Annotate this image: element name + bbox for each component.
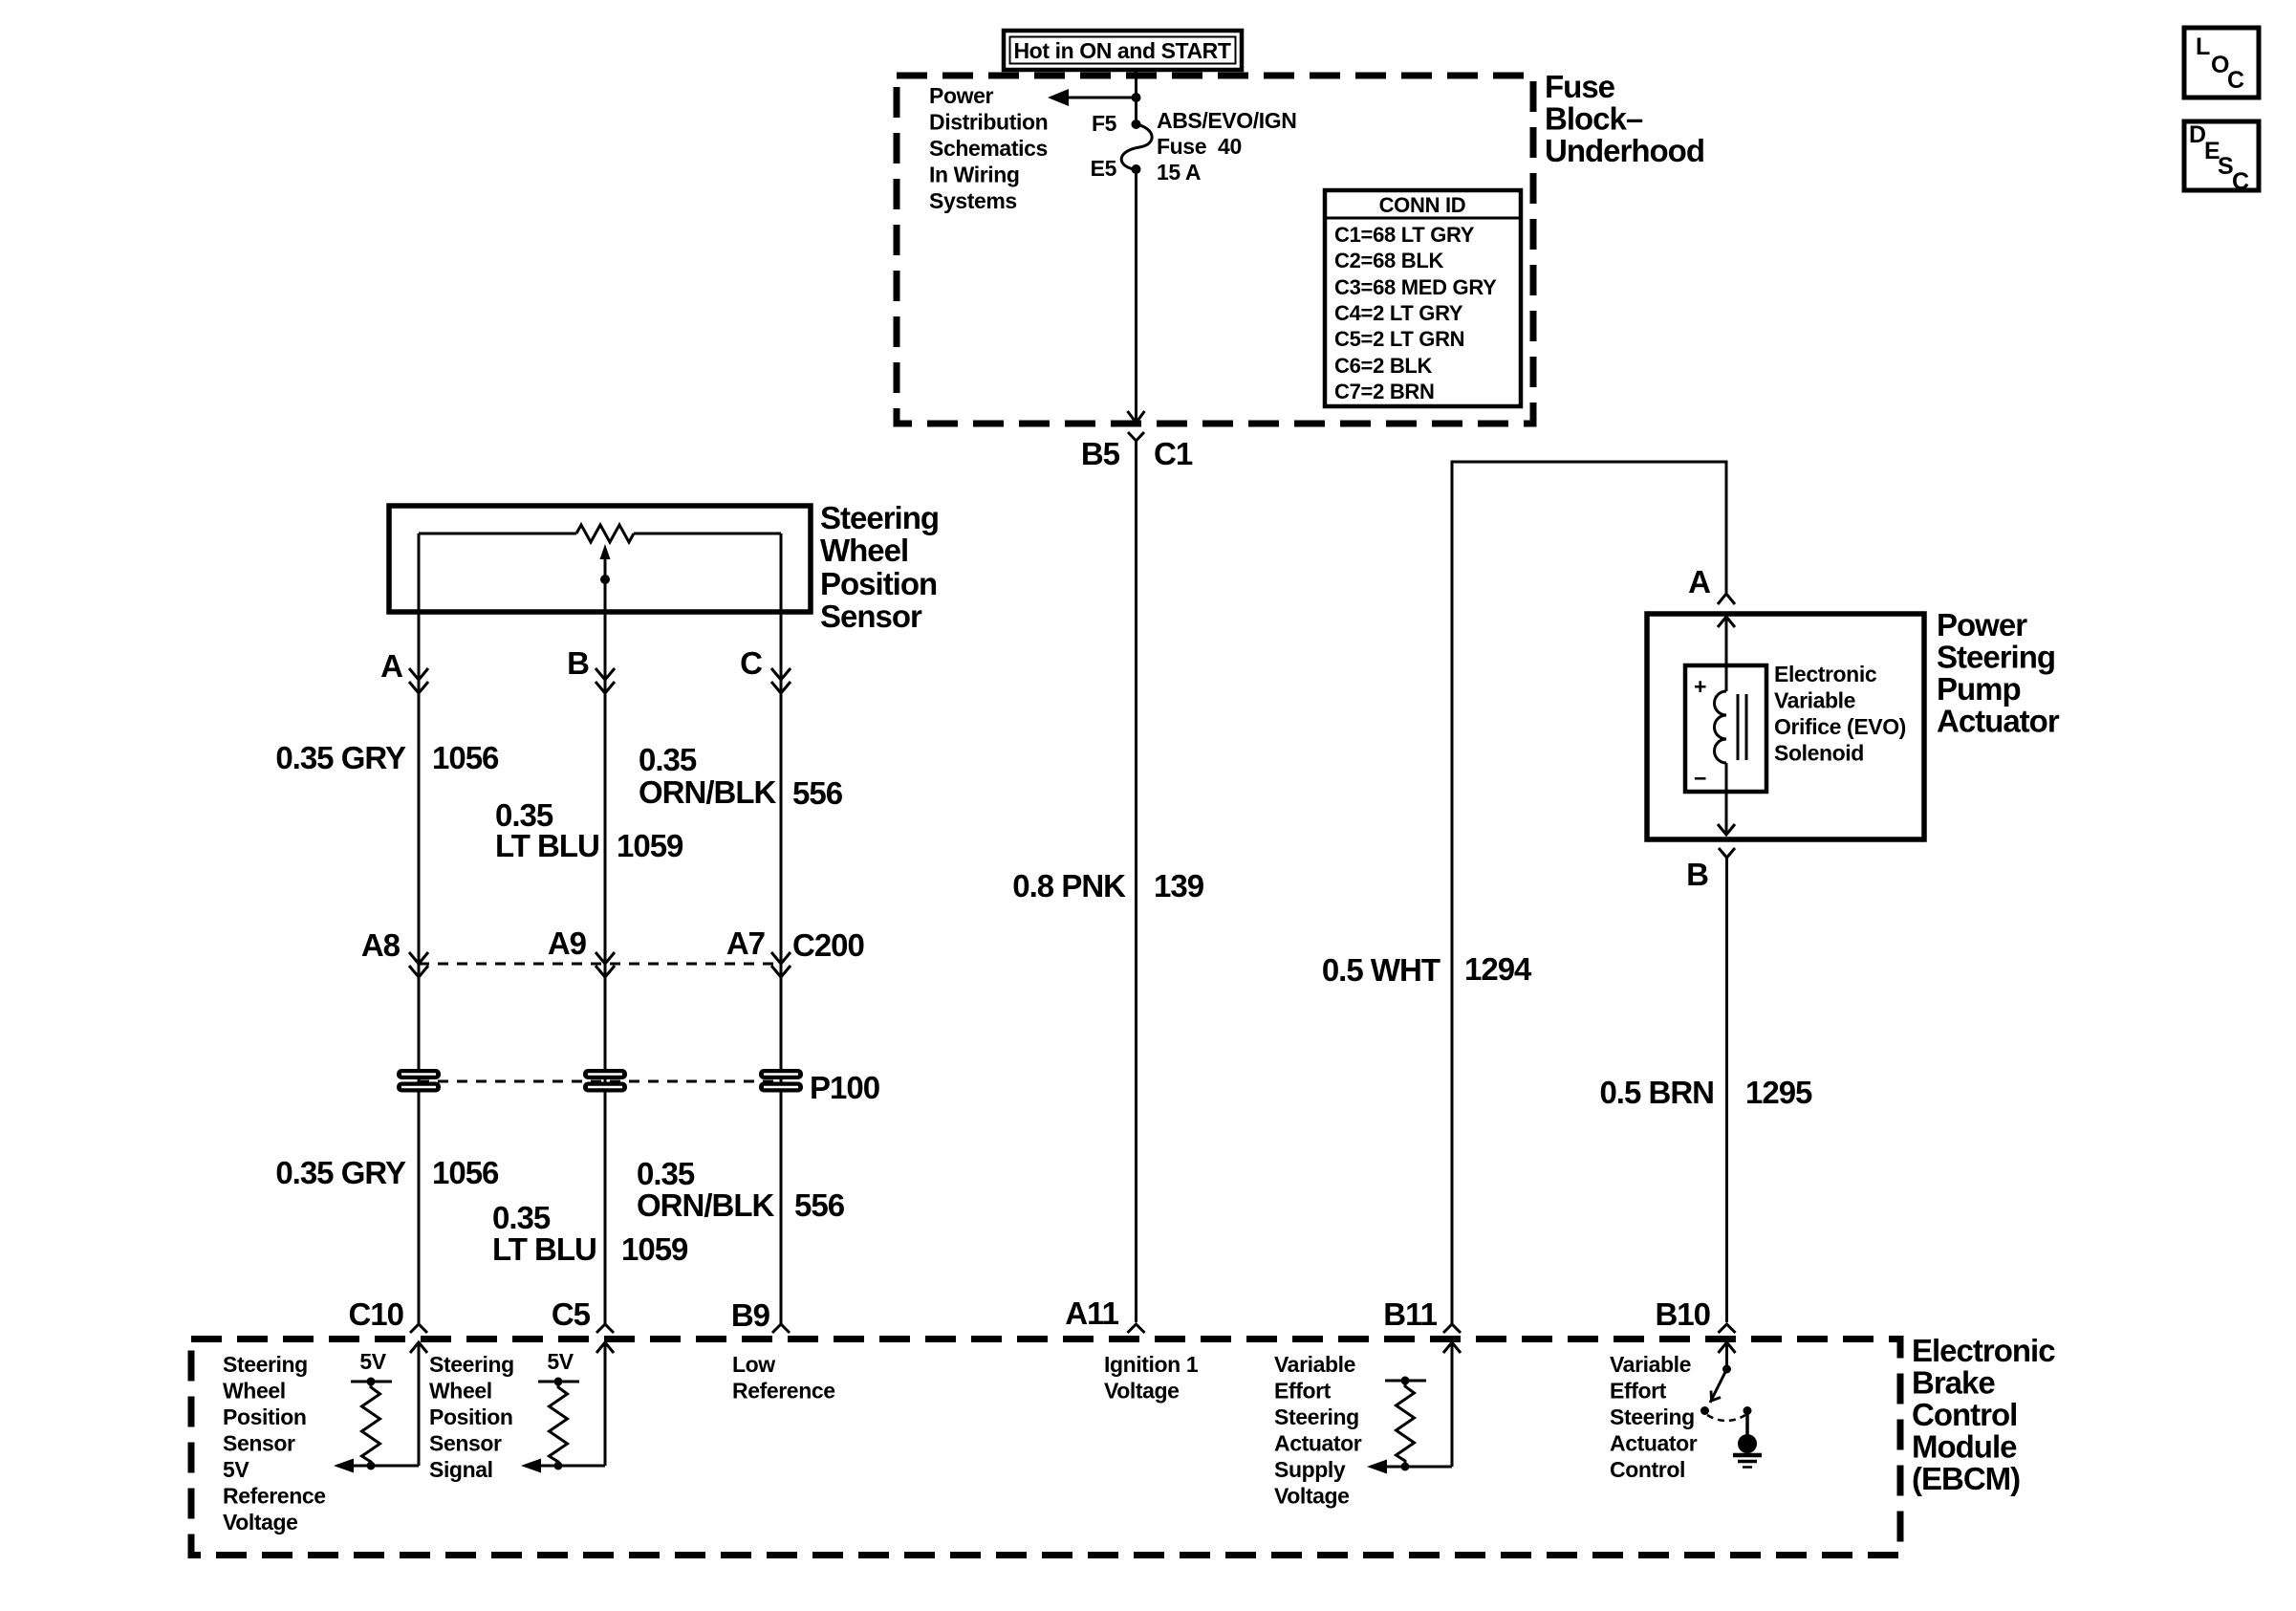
wire ignition feed inside fuse block [1135, 169, 1137, 422]
5V reference circuit at C10 [334, 1342, 427, 1473]
solenoid coil [1715, 691, 1727, 763]
svg-text:(EBCM): (EBCM) [1912, 1461, 2020, 1496]
connector A at actuator [1688, 564, 1735, 604]
svg-text:Variable: Variable [1610, 1352, 1691, 1377]
pull-up resistor at C5 [538, 1378, 579, 1470]
svg-text:Signal: Signal [429, 1457, 493, 1482]
arrow up into actuator [1718, 617, 1735, 627]
svg-text:0.35 GRY: 0.35 GRY [275, 740, 406, 775]
pull-up resistor at C10 [351, 1378, 392, 1470]
wire label 0.35 ORN/BLK 556 (upper) [639, 742, 843, 811]
svg-text:0.35: 0.35 [639, 742, 697, 777]
svg-text:ORN/BLK: ORN/BLK [639, 774, 776, 810]
pin C10 [348, 1296, 427, 1333]
DESC corner box [2184, 121, 2259, 195]
power steering pump actuator box [1647, 614, 1924, 839]
actuator title [1937, 607, 2060, 739]
svg-text:5V: 5V [359, 1349, 386, 1374]
sensor title [820, 500, 939, 634]
svg-text:C1=68 LT GRY: C1=68 LT GRY [1334, 223, 1475, 247]
svg-text:0.35: 0.35 [492, 1200, 551, 1235]
svg-text:Wheel: Wheel [820, 533, 908, 568]
svg-text:C10: C10 [348, 1296, 403, 1332]
EBCM text: ignition 1 voltage [1104, 1352, 1199, 1404]
svg-text:B10: B10 [1655, 1296, 1710, 1332]
svg-text:Orifice (EVO): Orifice (EVO) [1774, 714, 1906, 739]
svg-text:556: 556 [794, 1187, 845, 1223]
svg-text:Fuse: Fuse [1545, 69, 1615, 104]
svg-text:Variable: Variable [1774, 688, 1855, 713]
svg-text:ABS/EVO/IGN: ABS/EVO/IGN [1157, 108, 1296, 133]
svg-text:Actuator: Actuator [1274, 1431, 1362, 1456]
arrow down inside actuator [1718, 824, 1735, 835]
svg-text:0.5 WHT: 0.5 WHT [1322, 952, 1440, 988]
EBCM text: variable effort steering actuator control [1610, 1352, 1698, 1482]
pin C of sensor [740, 645, 791, 693]
EBCM text: steering wheel position sensor signal [429, 1352, 514, 1482]
pin B of sensor [567, 645, 615, 693]
potentiometer track wires [419, 533, 576, 535]
svg-text:C200: C200 [792, 927, 864, 963]
svg-text:B9: B9 [731, 1297, 770, 1333]
svg-text:Ignition 1: Ignition 1 [1104, 1352, 1199, 1377]
svg-text:0.8 PNK: 0.8 PNK [1012, 868, 1126, 903]
svg-text:Schematics: Schematics [929, 136, 1048, 161]
svg-text:5V: 5V [547, 1349, 574, 1374]
svg-text:Effort: Effort [1610, 1379, 1667, 1404]
svg-text:1056: 1056 [432, 740, 499, 775]
svg-text:C5=2 LT GRN: C5=2 LT GRN [1334, 327, 1464, 351]
pull-up resistor at B11 [1385, 1377, 1426, 1471]
svg-text:1295: 1295 [1745, 1075, 1812, 1110]
svg-text:P100: P100 [810, 1070, 879, 1105]
svg-text:In Wiring: In Wiring [929, 163, 1020, 187]
svg-text:Position: Position [820, 566, 937, 601]
pin B9 [731, 1297, 790, 1333]
svg-text:Distribution: Distribution [929, 110, 1048, 135]
svg-text:Control: Control [1610, 1457, 1685, 1482]
wire B from sensor [604, 579, 607, 1324]
fuse block title [1545, 69, 1704, 168]
svg-text:0.5 BRN: 0.5 BRN [1599, 1075, 1714, 1110]
EBCM text: variable effort steering actuator supply voltage [1274, 1352, 1362, 1509]
pin B10 [1655, 1296, 1735, 1333]
svg-text:Position: Position [429, 1404, 513, 1429]
solenoid core lines [1737, 694, 1740, 760]
svg-text:Steering: Steering [429, 1352, 514, 1377]
svg-text:C2=68 BLK: C2=68 BLK [1334, 249, 1443, 272]
svg-text:B: B [1686, 857, 1708, 892]
svg-text:Variable: Variable [1274, 1352, 1355, 1377]
svg-text:E5: E5 [1091, 156, 1117, 181]
arrow to power distribution [1048, 89, 1069, 106]
svg-text:Block–: Block– [1545, 101, 1643, 137]
P100 grommet on wire B [583, 1069, 627, 1093]
svg-text:+: + [1694, 674, 1706, 699]
wire 0.5 BRN 1295 [1725, 858, 1728, 1322]
svg-text:1056: 1056 [432, 1155, 499, 1190]
C200 crossing at A8 [361, 927, 428, 977]
svg-text:LT BLU: LT BLU [495, 828, 599, 863]
svg-text:B11: B11 [1383, 1296, 1437, 1332]
svg-text:Voltage: Voltage [223, 1510, 298, 1535]
svg-text:Fuse 40: Fuse 40 [1157, 134, 1242, 159]
svg-text:C4=2 LT GRY: C4=2 LT GRY [1334, 301, 1463, 325]
svg-text:Wheel: Wheel [223, 1379, 286, 1404]
svg-text:ORN/BLK: ORN/BLK [637, 1187, 774, 1223]
wire label 0.35 LT BLU 1059 (upper) [495, 797, 683, 863]
fuse value labels [1157, 108, 1296, 185]
wire 0.8 PNK 139 (ignition 1 voltage) [1135, 441, 1137, 1322]
svg-text:A9: A9 [548, 925, 587, 961]
C200 crossing at A9 [548, 925, 615, 977]
svg-text:Wheel: Wheel [429, 1379, 492, 1404]
solenoid label [1774, 662, 1906, 766]
svg-text:A7: A7 [726, 925, 765, 961]
EBCM dashed box [191, 1339, 1900, 1556]
fuse ABS/EVO/IGN 15A [1121, 124, 1152, 169]
fuse block underhood dashed box [897, 76, 1533, 424]
pin A of sensor [380, 648, 428, 693]
svg-text:15 A: 15 A [1157, 160, 1201, 185]
svg-text:556: 556 [792, 775, 843, 811]
potentiometer resistor [576, 525, 634, 542]
svg-text:−: − [1694, 766, 1706, 791]
ground inside EBCM [1733, 1410, 1762, 1468]
svg-text:Steering: Steering [223, 1352, 308, 1377]
svg-text:1059: 1059 [621, 1231, 688, 1267]
CONN ID table [1325, 190, 1521, 406]
svg-text:Control: Control [1912, 1397, 2017, 1432]
connector B at actuator [1686, 848, 1735, 892]
steering wheel position sensor box [389, 506, 811, 612]
svg-text:B5: B5 [1081, 436, 1120, 471]
wire label 0.35 GRY 1056 (upper) [275, 740, 499, 775]
svg-text:C1: C1 [1154, 436, 1193, 471]
svg-text:1294: 1294 [1464, 951, 1532, 987]
LOC corner box [2184, 28, 2259, 98]
P100 grommet on wire C [759, 1069, 803, 1093]
svg-text:L: L [2196, 33, 2210, 60]
EVO solenoid box [1685, 665, 1766, 792]
wire 0.5 WHT 1294 top run [1452, 462, 1726, 1324]
EBCM text: low reference [732, 1352, 835, 1404]
svg-text:Reference: Reference [223, 1484, 326, 1509]
connector B5 / C1 [1081, 432, 1193, 471]
P100 grommet on wire A [397, 1069, 441, 1093]
svg-text:5V: 5V [223, 1457, 249, 1482]
C200 crossing at A7 [726, 925, 791, 977]
svg-text:LT BLU: LT BLU [492, 1231, 596, 1267]
svg-text:Systems: Systems [929, 188, 1017, 213]
note: power distribution schematics [929, 83, 1048, 213]
wire from solenoid to actuator bottom [1725, 763, 1728, 835]
EBCM title [1912, 1333, 2055, 1496]
wire C from sensor [780, 612, 783, 1324]
svg-text:Hot in ON and START: Hot in ON and START [1013, 38, 1230, 63]
svg-text:Underhood: Underhood [1545, 133, 1704, 168]
supply voltage circuit at B11 [1367, 1342, 1461, 1474]
svg-text:C7=2 BRN: C7=2 BRN [1334, 380, 1435, 403]
pin F5 [1132, 120, 1141, 129]
svg-text:Position: Position [223, 1404, 307, 1429]
svg-text:Steering: Steering [1610, 1404, 1695, 1429]
svg-text:Steering: Steering [820, 500, 939, 535]
svg-text:C6=2 BLK: C6=2 BLK [1334, 354, 1433, 378]
svg-text:Voltage: Voltage [1104, 1379, 1180, 1404]
svg-text:0.35: 0.35 [637, 1156, 695, 1191]
connector C200 dashed line [419, 963, 781, 966]
wiper node [600, 575, 610, 584]
control switch at B10 [1700, 1342, 1752, 1421]
svg-text:A11: A11 [1065, 1295, 1118, 1331]
hot-in-on label box [1004, 31, 1242, 70]
wiper arrow [604, 558, 607, 579]
svg-text:Actuator: Actuator [1937, 704, 2060, 739]
wire label 0.35 ORN/BLK 556 (lower) [637, 1156, 845, 1223]
svg-text:Electronic: Electronic [1912, 1333, 2055, 1368]
svg-text:Sensor: Sensor [429, 1431, 502, 1456]
svg-text:A8: A8 [361, 927, 401, 963]
svg-text:Reference: Reference [732, 1379, 835, 1404]
pin B11 [1383, 1296, 1461, 1333]
wire from hot box into fuse block [1135, 70, 1137, 124]
svg-text:C: C [2227, 67, 2244, 94]
arrow down at fuse block exit [1128, 411, 1145, 423]
svg-text:B: B [567, 645, 589, 681]
svg-text:Brake: Brake [1912, 1365, 1995, 1401]
svg-text:CONN ID: CONN ID [1379, 193, 1466, 217]
svg-text:0.35 GRY: 0.35 GRY [275, 1155, 406, 1190]
wire A from sensor [418, 612, 421, 1324]
svg-text:A: A [1688, 564, 1710, 599]
svg-text:Sensor: Sensor [223, 1431, 295, 1456]
svg-text:139: 139 [1154, 868, 1204, 903]
svg-text:Voltage: Voltage [1274, 1484, 1350, 1509]
pin A11 [1065, 1295, 1144, 1333]
svg-text:A: A [380, 648, 402, 684]
svg-text:Low: Low [732, 1352, 775, 1377]
svg-text:Solenoid: Solenoid [1774, 741, 1864, 766]
wire inside actuator to solenoid [1725, 617, 1728, 691]
svg-text:1059: 1059 [617, 828, 683, 863]
EBCM text: steering wheel position sensor 5V reference voltage [223, 1352, 326, 1535]
svg-text:Power: Power [1937, 607, 2027, 642]
svg-text:C5: C5 [552, 1296, 591, 1332]
svg-text:Steering: Steering [1274, 1404, 1359, 1429]
signal circuit at C5 [521, 1342, 614, 1473]
svg-text:Pump: Pump [1937, 671, 2021, 707]
node junction at power feed [1132, 93, 1141, 102]
svg-text:C: C [2232, 168, 2249, 195]
svg-text:F5: F5 [1092, 111, 1117, 136]
pin E5 [1132, 164, 1141, 174]
svg-text:Steering: Steering [1937, 640, 2055, 675]
svg-text:C: C [740, 645, 762, 681]
wire label 0.35 LT BLU 1059 (lower) [492, 1200, 688, 1267]
svg-text:Actuator: Actuator [1610, 1431, 1698, 1456]
svg-text:Sensor: Sensor [820, 599, 922, 634]
svg-text:Supply: Supply [1274, 1457, 1346, 1482]
pin C5 [552, 1296, 614, 1333]
svg-text:C3=68 MED GRY: C3=68 MED GRY [1334, 275, 1497, 299]
wire label 0.35 GRY 1056 (lower) [275, 1155, 499, 1190]
wire to power distribution arrow [1064, 97, 1137, 99]
svg-text:Electronic: Electronic [1774, 662, 1877, 686]
svg-text:Power: Power [929, 83, 993, 108]
svg-text:Module: Module [1912, 1429, 2017, 1465]
splice pass-through P100 dashed line [419, 1080, 781, 1083]
svg-text:Effort: Effort [1274, 1379, 1332, 1404]
